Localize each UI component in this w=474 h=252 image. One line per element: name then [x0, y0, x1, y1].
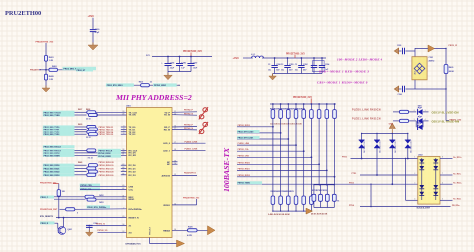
resistor R3513 strap pull-up	[326, 103, 328, 105]
ground below C398	[86, 230, 94, 237]
svg-text:8: 8	[442, 157, 443, 159]
wire pulldown bottom rail	[273, 210, 312, 212]
wire RST label to Q401 gate	[55, 222, 58, 224]
resistor R403 series	[49, 68, 58, 71]
power port arrow IC bottom	[177, 240, 185, 247]
svg-text:R410: R410	[139, 81, 143, 84]
svg-text:LA05: LA05	[413, 71, 416, 75]
net label PETH2_TXEN highlighted	[237, 181, 262, 184]
svg-text:RX_D3: RX_D3	[129, 175, 137, 177]
svg-text:MII PHY ADDRESS=2: MII PHY ADDRESS=2	[115, 93, 192, 102]
wire LED1 out	[423, 111, 429, 113]
wire CRS	[100, 185, 127, 187]
svg-text:PRU2_R: PRU2_R	[41, 223, 49, 225]
net label PRU2_MII0_TXEN highlighted	[43, 113, 75, 116]
net label PETH2_RXER highlighted	[98, 155, 122, 158]
svg-text:PRU2_ETH_LED1: PRU2_ETH_LED1	[238, 138, 254, 140]
svg-text:C385: C385	[170, 62, 175, 64]
svg-text:OSI 1Y-2L LVSE-GN: OSI 1Y-2L LVSE-GN	[432, 111, 459, 115]
net label PRU2_MII0_RXDV highlighted	[43, 151, 75, 154]
wire strap verticals to lower arrays	[273, 120, 335, 196]
svg-text:PRU2ETH00_3V3: PRU2ETH00_3V3	[183, 51, 202, 53]
svg-text:100--MODE 2 LED0--MODE 4: 100--MODE 2 LED0--MODE 4	[337, 57, 383, 61]
wire +3V3 to C409	[92, 18, 94, 30]
wire PRU2_MII0_TXEN	[75, 114, 87, 116]
net label PRU2_MII0_RXD0 highlighted	[43, 164, 75, 167]
svg-text:1% 33: 1% 33	[88, 158, 93, 160]
svg-text:XO: XO	[129, 232, 132, 234]
svg-text:PTD1: PTD1	[352, 173, 357, 175]
wire L301 to rail	[262, 57, 326, 59]
resistor R356 strap pull-up	[272, 103, 274, 105]
svg-text:R320: R320	[188, 226, 193, 228]
capacitor C385	[167, 57, 169, 64]
net label PETH2_RXCLK	[98, 149, 121, 152]
resistor R430	[399, 110, 408, 113]
svg-text:OSI 1Y-2L HASE-HN: OSI 1Y-2L HASE-HN	[432, 120, 460, 124]
resistor series PRU2_MII0_TXD0	[87, 125, 96, 128]
wire 3V3 to R415	[58, 184, 60, 190]
wire crystal bottom rail	[414, 80, 416, 89]
net label PRU2_MII0_TXD0 highlighted	[43, 125, 75, 128]
IC left pin numbers	[122, 111, 124, 233]
svg-text:PRU2_ETH_LED0: PRU2_ETH_LED0	[238, 131, 254, 133]
wire PRU2_MII0_RXD3	[75, 174, 87, 176]
svg-text:PLED0_LINK: PLED0_LINK	[238, 143, 250, 145]
net label PETH2_RXDV highlighted	[98, 151, 122, 154]
ground decoupling bank	[272, 74, 274, 77]
net label PRU2_ETH_PWDN highlighted	[87, 205, 111, 208]
svg-text:1: 1	[414, 157, 415, 159]
svg-text:C301: C301	[429, 57, 434, 59]
wire strap row PETH2_RXD0	[237, 163, 319, 165]
wire LED_0	[172, 142, 206, 144]
wire R405 to ground	[45, 80, 47, 88]
power arrow diode rail	[391, 129, 393, 134]
svg-text:RXD+-MODE 1 RXD--MODE 3: RXD+-MODE 1 RXD--MODE 3	[319, 70, 369, 74]
svg-text:C3: C3	[295, 64, 297, 66]
wire R403 to net label	[58, 69, 77, 71]
svg-text:49.9K: 49.9K	[449, 70, 455, 73]
transistor Q401	[58, 227, 66, 235]
resistor R358 strap pull-up	[287, 103, 289, 105]
svg-text:NC: NC	[167, 164, 171, 166]
svg-text:PRU2_MII0_RXD3: PRU2_MII0_RXD3	[44, 175, 60, 177]
svg-text:PRU2_C: PRU2_C	[41, 197, 49, 199]
crystal Y301 body	[414, 48, 416, 57]
capacitor C393 decoupling	[313, 58, 315, 65]
svg-text:RBIAS: RBIAS	[163, 229, 170, 232]
svg-text:10n: 10n	[281, 70, 284, 72]
power port arrow RBIAS	[208, 226, 216, 235]
wire PRU2_MII0_RXCLK	[75, 149, 87, 151]
svg-text:U302: U302	[418, 154, 423, 156]
resistor R374 strap	[333, 185, 335, 194]
svg-text:COL: COL	[129, 190, 134, 192]
wire strap row PETH2_RXD2	[237, 176, 335, 178]
svg-text:2: 2	[414, 173, 415, 175]
resistor R410 series MDIO	[141, 84, 150, 87]
svg-text:PETH2_P: PETH2_P	[184, 110, 194, 112]
svg-text:AVDD33: AVDD33	[162, 174, 171, 177]
wire strap row PETH2_TXEN long	[237, 183, 418, 185]
resistor R412 MDC	[85, 195, 94, 198]
svg-text:LED_0: LED_0	[163, 143, 171, 145]
svg-text:L 0.1: L 0.1	[251, 54, 255, 56]
svg-text:C394: C394	[325, 63, 329, 66]
wire decoupling bottom rail	[273, 73, 322, 75]
wire COL	[80, 189, 127, 191]
IC right pin numbers	[174, 111, 176, 231]
svg-text:INTx/PWDNx: INTx/PWDNx	[129, 209, 143, 211]
svg-text:1%: 1%	[337, 200, 340, 202]
net label PRU2_ETH_RST highlighted	[40, 221, 55, 224]
wire X1 row	[89, 225, 126, 227]
diode D303 dual	[391, 134, 393, 141]
svg-text:33: 33	[150, 82, 152, 84]
svg-text:24C LBLC10C: 24C LBLC10C	[395, 140, 397, 153]
capacitor C391 decoupling	[287, 58, 289, 65]
net label PRU2_MII0_RXCLK floating	[43, 145, 75, 148]
capacitor C409	[90, 30, 96, 32]
LED D306	[418, 116, 423, 124]
LED D307 parallel	[415, 121, 417, 127]
svg-text:ETH_RESET3: ETH_RESET3	[40, 216, 54, 218]
wire reset row	[56, 217, 127, 219]
svg-text:PETH2_CRS: PETH2_CRS	[238, 155, 250, 157]
wire TVS right Rx_RD2-	[440, 199, 453, 201]
svg-text:PETH2_RXER: PETH2_RXER	[98, 156, 111, 158]
svg-text:RX_D2: RX_D2	[129, 172, 137, 174]
wire LED row1	[393, 111, 400, 113]
svg-text:+3V3: +3V3	[233, 56, 240, 60]
wire MDIO row2	[54, 198, 86, 200]
resistor R401 pull-up	[44, 55, 47, 61]
svg-text:R445: R445	[78, 161, 82, 164]
svg-text:PETH2_RXD3: PETH2_RXD3	[238, 125, 250, 127]
TVS internal column wires	[421, 158, 423, 200]
svg-text:VDDIO: VDDIO	[163, 205, 170, 207]
svg-text:0: 0	[77, 213, 78, 215]
resistor R359 strap pull-up	[295, 103, 297, 105]
svg-text:R413: R413	[99, 201, 103, 204]
capacitor C395	[399, 50, 402, 52]
power arrow crystal rail	[428, 45, 435, 52]
svg-text:PB_RDn: PB_RDn	[452, 205, 460, 207]
resistor R416 INT	[66, 208, 75, 211]
wire strap row PETH2_RXD1	[237, 169, 327, 171]
svg-text:PRU2_MII0_TXD3: PRU2_MII0_TXD3	[44, 134, 60, 136]
ground arrow pulldown rail	[306, 210, 311, 212]
net label PRU2_MII0_RXD1 highlighted	[43, 167, 75, 170]
net label PRU2_MII0_TXD highlighted	[63, 67, 97, 70]
junction dots decoupling rail	[274, 57, 276, 59]
svg-text:10n: 10n	[268, 70, 271, 72]
resistor series PRU2_MII0_RXD1	[87, 167, 96, 170]
svg-text:PLED1_LINK R431CN: PLED1_LINK R431CN	[352, 117, 381, 120]
wire D303 down	[391, 148, 393, 185]
resistor R3610 pulldown	[310, 196, 314, 204]
wire RBIAS	[172, 229, 208, 231]
wire VDDIO	[172, 204, 197, 206]
wire strap row PETH2_COL	[237, 150, 304, 152]
wire PRU2_MII0_TXD0	[75, 126, 87, 128]
wire R415 to reset net	[58, 196, 60, 217]
wire label to R401	[45, 43, 47, 55]
svg-text:C391: C391	[289, 64, 294, 66]
wire strap row PLED0_LINK	[237, 144, 296, 146]
svg-text:RX_D0: RX_D0	[129, 165, 137, 167]
resistor R365 pulldown	[271, 196, 275, 204]
svg-text:PRU2_MII0_TXEN: PRU2_MII0_TXEN	[44, 115, 61, 117]
wire label to R416	[60, 208, 66, 210]
svg-text:49.9K 49.9K 49.9K: 49.9K 49.9K 49.9K	[311, 213, 328, 216]
capacitor C386	[179, 57, 181, 64]
svg-text:PRU2ETH00_3V3: PRU2ETH00_3V3	[183, 197, 200, 199]
net label PRU2_MII0_TXD1 highlighted	[43, 128, 75, 131]
junction C387	[190, 56, 192, 58]
svg-text:PETH2_TXEN: PETH2_TXEN	[238, 183, 251, 185]
svg-text:Rx_RD2+: Rx_RD2+	[453, 183, 462, 185]
wire LED row2	[393, 120, 400, 122]
crystal symbol inside Y301	[414, 63, 425, 74]
resistor R371 strap	[313, 185, 315, 194]
resistor R3514 strap pull-up	[334, 103, 336, 105]
svg-text:PLED0_LINK: PLED0_LINK	[185, 141, 198, 143]
IC left pin names	[129, 112, 143, 234]
net label PRU2_MII0_RXD3 highlighted	[43, 173, 75, 176]
svg-text:R371R372R373R374: R371R372R373R374	[312, 189, 328, 192]
svg-text:1.2K: 1.2K	[49, 60, 54, 62]
wire to LED2	[409, 120, 417, 122]
wire row A to TVS	[351, 158, 418, 160]
svg-text:C392: C392	[303, 64, 308, 66]
svg-text:PETH2_N: PETH2_N	[184, 113, 194, 115]
resistor R3511 strap pull-up	[311, 103, 313, 105]
resistor series PRU2_MII0_RXD0	[88, 164, 97, 167]
wire LED_1	[172, 149, 206, 151]
wire cap bottoms rail	[168, 71, 191, 73]
junction C386	[179, 56, 181, 58]
svg-text:SLVU2.8-4.TBT: SLVU2.8-4.TBT	[417, 206, 431, 209]
wire R401 to node	[45, 61, 47, 74]
svg-text:PETH2_COL: PETH2_COL	[238, 149, 250, 151]
TVS internal diodes	[419, 159, 438, 195]
wire D301 down	[361, 148, 363, 159]
differential pair marker TD	[199, 107, 208, 119]
resistor R357 strap pull-up	[280, 103, 282, 105]
resistor series PRU2_MII0_RXD3	[87, 173, 96, 176]
wire NC stub 1	[172, 161, 178, 163]
svg-text:47pF: 47pF	[95, 31, 100, 34]
wire TVS pin4 stub	[406, 199, 418, 201]
svg-text:PETH2_TXD3 35: PETH2_TXD3 35	[99, 134, 114, 136]
svg-text:5: 5	[442, 199, 443, 201]
wire label to R403	[39, 69, 49, 71]
svg-text:3: 3	[414, 119, 415, 121]
resistor R431	[399, 119, 408, 122]
ground below C409	[88, 43, 98, 51]
wire 3V3 rail left segment	[152, 56, 212, 58]
svg-text:10n: 10n	[295, 70, 298, 72]
svg-text:33 33: 33 33	[86, 119, 91, 121]
capacitor C396	[399, 88, 402, 90]
resistor R429	[444, 65, 448, 74]
wire PRU2_MII0_RXD1	[75, 167, 87, 169]
wire C409 to ground	[92, 32, 94, 45]
net label PRU2_MII0_RXD2 highlighted	[43, 170, 75, 173]
node junction base	[45, 69, 47, 71]
svg-text:PTD3: PTD3	[349, 182, 354, 184]
svg-text:RX_ER: RX_ER	[129, 155, 137, 157]
svg-text:Rx_RD1+: Rx_RD1+	[453, 157, 462, 159]
wire INT row	[75, 208, 127, 211]
capacitor C392 decoupling	[300, 58, 302, 65]
wire PRU2_MII0_RXDV	[75, 152, 127, 154]
svg-text:TX_D3: TX_D3	[129, 134, 137, 136]
wire crystal top rail	[415, 48, 446, 50]
wire XO row	[98, 231, 127, 233]
svg-text:7: 7	[442, 173, 443, 175]
net label PETH2_MDIO highlighted	[153, 83, 177, 86]
wire MDIO row	[107, 84, 180, 86]
net label PRU2_ETH_LED1 highlighted	[237, 136, 260, 139]
wire strap row PETH2_CRS	[237, 156, 311, 158]
capacitor C398 on X1	[88, 225, 90, 227]
resistor R3510 strap pull-up	[303, 103, 305, 105]
ground below R405	[42, 86, 50, 93]
resistor R405 pull-down	[44, 74, 47, 80]
svg-text:PRU2ETH00_3V3: PRU2ETH00_3V3	[293, 97, 312, 99]
svg-text:PECK_XI: PECK_XI	[449, 45, 458, 47]
wire PRU2_MII0_TXD3	[75, 133, 87, 135]
svg-text:24C LBLC10C: 24C LBLC10C	[410, 140, 412, 153]
resistor R368 pulldown	[294, 196, 298, 204]
svg-text:TX_EN: TX_EN	[129, 115, 136, 117]
net label PRU2_MII0_RXCLK highlighted	[43, 149, 75, 152]
svg-text:R437: R437	[78, 108, 82, 111]
diode D301 dual	[361, 134, 363, 141]
wire TD_P	[172, 111, 197, 114]
svg-text:PETH2_RXD1: PETH2_RXD1	[238, 168, 250, 170]
resistor series PRU2_MII0_TXD2	[87, 130, 96, 133]
IC right pin names	[162, 112, 171, 232]
diode D304 dual	[407, 134, 409, 141]
svg-text:2: 2	[414, 110, 415, 112]
resistor R366 pulldown	[279, 196, 283, 204]
svg-text:PETH2_MDIO: PETH2_MDIO	[154, 85, 167, 87]
svg-text:C396: C396	[398, 94, 402, 96]
op-amp U301 PHY IC body	[127, 108, 173, 238]
svg-text:PRU2ETH00_3V3: PRU2ETH00_3V3	[36, 42, 55, 44]
resistor series PRU2_MII0_TXCLK	[87, 111, 96, 114]
wire D304 down	[407, 148, 409, 159]
resistor series PRU2_MII0_RXD2	[88, 170, 97, 173]
net label PETH2_CRS highlighted	[80, 184, 100, 187]
svg-text:R365R366R367R368R369R370: R365R366R367R368R369R370	[271, 191, 294, 193]
svg-text:PRU2ETH00_3V3: PRU2ETH00_3V3	[286, 53, 305, 55]
wire PRU2_MII0_TXCLK	[75, 111, 87, 113]
wire TVS chain vertical	[405, 159, 407, 201]
svg-text:RD_M: RD_M	[164, 129, 170, 131]
svg-text:100BASE-TX: 100BASE-TX	[222, 147, 231, 192]
capacitor C390 decoupling	[274, 58, 276, 65]
svg-text:3: 3	[414, 182, 415, 184]
svg-text:33 33: 33 33	[86, 137, 91, 139]
wire group bottom rail	[314, 207, 334, 209]
ferrite bead L301	[252, 56, 264, 58]
svg-text:PRU2ETH00_RST: PRU2ETH00_RST	[40, 209, 58, 211]
ground left of C395	[394, 48, 399, 54]
svg-text:C3: C3	[281, 64, 283, 66]
svg-text:2.49K 49.9K 49.9K 49.9K: 2.49K 49.9K 49.9K 49.9K	[268, 213, 290, 216]
svg-text:PFBOUT: PFBOUT	[150, 226, 152, 235]
wire row D under TVS	[360, 206, 451, 208]
wire PRU2_MII0_RXD0	[75, 164, 87, 166]
wire LED2 out	[423, 120, 429, 122]
wire crystal right vertical	[445, 49, 447, 65]
svg-text:PTD0: PTD0	[342, 157, 347, 159]
wire TVS right Rx_RD1-	[440, 174, 453, 176]
resistor series PRU2_MII0_TXD1	[88, 128, 97, 131]
svg-text:PETH2_RXD3 26: PETH2_RXD3 26	[99, 175, 114, 177]
resistor R372 strap	[320, 185, 322, 194]
resistor R320 RBIAS	[188, 229, 198, 232]
net label PRU2_ETH_LED0 highlighted	[237, 130, 260, 133]
capacitor C387	[190, 57, 192, 64]
svg-text:PETH2_N: PETH2_N	[184, 128, 194, 130]
capacitor C394 decoupling	[321, 58, 323, 65]
net label PRU2_MII0_TXD2 highlighted	[43, 130, 75, 133]
wire +3V3 to L301	[243, 57, 253, 59]
resistor R3512 strap pull-up	[318, 103, 320, 105]
wire strap row PETH2_RXD3	[237, 126, 273, 128]
svg-text:12: 12	[178, 85, 180, 87]
svg-text:PETH2_P: PETH2_P	[184, 124, 194, 126]
svg-text:PRU2_ETH_MDIO: PRU2_ETH_MDIO	[107, 85, 123, 87]
ground cap bank left	[167, 72, 169, 76]
svg-text:C387: C387	[193, 62, 198, 64]
svg-text:CRS+-MODE 1 RXD0+-MODE 0: CRS+-MODE 1 RXD0+-MODE 0	[317, 80, 368, 84]
svg-text:PLED0_LINK R430CN: PLED0_LINK R430CN	[352, 108, 381, 111]
wire strap row PRU2_ETH_LED1	[237, 138, 288, 140]
wire TVS right Rx_RD1+	[440, 158, 453, 160]
svg-text:PETH2_RXD0: PETH2_RXD0	[238, 162, 250, 164]
net label PRU2_MII0_RXER highlighted	[43, 154, 75, 157]
svg-text:Rx_RD2-: Rx_RD2-	[453, 199, 461, 201]
svg-text:R429: R429	[449, 66, 454, 69]
svg-text:MDIO: MDIO	[129, 199, 135, 201]
svg-text:24C LBLC10C: 24C LBLC10C	[364, 140, 366, 153]
svg-text:LED_1: LED_1	[163, 150, 171, 152]
wire RD_M	[172, 128, 197, 131]
diode D302 dual	[376, 134, 378, 141]
svg-text:+3V3: +3V3	[88, 14, 95, 18]
svg-text:1.2K: 1.2K	[49, 79, 54, 81]
resistor R413 MDIO	[87, 198, 96, 201]
resistor series PRU2_MII0_TXD3	[88, 133, 97, 136]
svg-text:24C LBLC10C: 24C LBLC10C	[380, 140, 382, 153]
svg-text:PRU2ETH00: PRU2ETH00	[5, 10, 41, 17]
svg-text:RX_D1: RX_D1	[129, 168, 137, 170]
svg-text:GND: GND	[389, 124, 394, 126]
svg-text:PRU2_ETH_PWDNn: PRU2_ETH_PWDNn	[87, 207, 107, 209]
net label PRU2_MII0_TXD3 highlighted	[43, 133, 75, 136]
svg-text:C395: C395	[397, 45, 401, 47]
selection box around C393 C394	[313, 61, 325, 72]
svg-text:PRU2_MII0_RXCLK: PRU2_MII0_RXCLK	[44, 147, 62, 149]
svg-text:C386: C386	[181, 62, 186, 64]
